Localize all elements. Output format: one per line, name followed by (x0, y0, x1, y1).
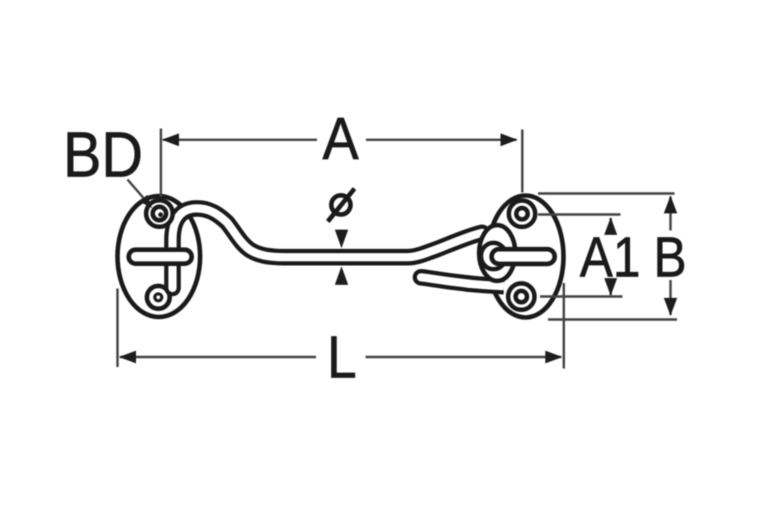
dimension line L (120, 356, 316, 358)
arrow A left (162, 133, 179, 146)
slot right (eye slot over rod ring) (492, 249, 555, 264)
arrow dia down (335, 230, 348, 249)
svg-text:L: L (327, 324, 357, 390)
coiled eye / screw hole left-top (spiral rings) (146, 200, 173, 227)
extension line A1 top (538, 213, 621, 215)
arrow A right (501, 133, 518, 146)
extension line L left (116, 289, 118, 368)
leader line BD (128, 180, 144, 199)
dimension line A1 (610, 218, 612, 234)
diameter symbol (328, 189, 355, 222)
arrow BD leader (140, 195, 153, 208)
dimension line A (163, 139, 317, 141)
svg-text:B: B (653, 226, 686, 289)
arrow L right (545, 351, 562, 364)
screw hole right-bottom (ring) (508, 283, 534, 309)
hook ring (flattened eye of the hook, over rod ends) (479, 225, 515, 281)
hook tip rod (open end of hook, under the ring) (421, 277, 504, 286)
arrow A1 up (604, 217, 617, 235)
screw hole right-top (ring) (509, 201, 535, 227)
extension line B top (538, 192, 675, 194)
slot left (eye slot over rod) (129, 250, 192, 264)
arrow L left (119, 351, 136, 364)
extension line A right (521, 130, 523, 193)
hook plate right (oval) (488, 196, 564, 318)
svg-text:BD: BD (63, 119, 143, 190)
svg-text:A1: A1 (580, 226, 641, 289)
dimension lines (118, 129, 678, 369)
arrowheads (119, 133, 677, 363)
extension line B bottom (548, 318, 677, 320)
arrow B down (664, 298, 677, 316)
extension line L right (563, 283, 565, 369)
hook rod (continuous wire: left eye loop, S-curve, shaft, rise to ring) (173, 208, 483, 288)
extension line A left (160, 129, 162, 198)
arrow dia up (335, 266, 348, 285)
eye plate left (oval) (118, 196, 201, 317)
arrow A1 down (604, 278, 617, 296)
extension line A1 bottom (540, 295, 623, 297)
screw hole left-bottom (ring) (147, 286, 170, 309)
svg-text:A: A (322, 107, 358, 173)
dimension line B (669, 197, 671, 231)
arrow B up (664, 196, 677, 214)
